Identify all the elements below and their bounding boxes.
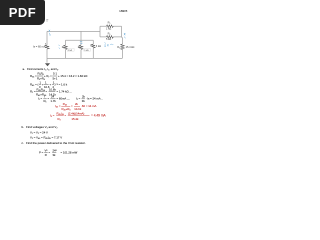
svg-text:(2.4k)(14mA): (2.4k)(14mA) — [68, 111, 84, 115]
svg-text:5 kΩ: 5 kΩ — [84, 49, 89, 52]
svg-text:R₃: R₃ — [58, 117, 61, 121]
svg-text:+ R₇ =: + R₇ = — [44, 74, 52, 78]
svg-text:c.: c. — [22, 141, 25, 145]
svg-text:24²: 24² — [53, 148, 57, 152]
svg-text:·Is ≈ 24 mA ..: ·Is ≈ 24 mA .. — [86, 97, 103, 101]
svg-text:= 60mA ....: = 60mA .... — [57, 97, 71, 101]
svg-text:R₅R₆: R₅R₆ — [38, 72, 44, 76]
svg-text:Find the power delivered to th: Find the power delivered to the 3 kΩ res… — [26, 141, 86, 145]
svg-text:2k: 2k — [82, 95, 86, 99]
svg-text:HW#5: HW#5 — [120, 9, 128, 13]
svg-text:R₄: R₄ — [90, 44, 93, 48]
svg-text:3 kΩ: 3 kΩ — [96, 44, 101, 48]
svg-text:=: = — [71, 104, 73, 108]
svg-text:V₂ = V₄₅ = R₄₅I₄₅ = 7.17 V: V₂ = V₄₅ = R₄₅I₄₅ = 7.17 V — [30, 135, 62, 139]
svg-text:15.4k: 15.4k — [72, 117, 79, 121]
svg-text:R₄₅I₄₅: R₄₅I₄₅ — [57, 111, 64, 115]
svg-text:=: = — [46, 90, 48, 94]
svg-text:+: + — [50, 83, 52, 87]
svg-text:1 kΩ: 1 kΩ — [106, 26, 111, 30]
svg-text:V²: V² — [45, 148, 48, 152]
svg-text:R₂: R₂ — [78, 45, 81, 49]
svg-text:Find voltages V₁ and V₂: Find voltages V₁ and V₂ — [26, 125, 58, 129]
svg-text:=: = — [48, 97, 50, 101]
svg-text:R₆: R₆ — [108, 32, 111, 36]
svg-text:R₄₅: R₄₅ — [63, 102, 67, 106]
svg-text:I₃ =: I₃ = — [50, 114, 55, 118]
svg-text:b.: b. — [22, 125, 25, 129]
svg-text:I₄₅ =: I₄₅ = — [55, 104, 61, 108]
svg-text:a.: a. — [23, 67, 26, 71]
svg-text:)⁻¹ = 1.6 k: )⁻¹ = 1.6 k — [55, 83, 68, 87]
svg-text:3k: 3k — [82, 99, 86, 103]
svg-text:V₁ = V₂ = 24 V: V₁ = V₂ = 24 V — [30, 130, 48, 134]
svg-text:Find currents I₁, I₂, and I₃.: Find currents I₁, I₂, and I₃. — [27, 67, 59, 71]
svg-text:R₁: R₁ — [44, 99, 47, 103]
svg-text:1.7k: 1.7k — [51, 99, 57, 103]
svg-text:1 kΩ: 1 kΩ — [68, 49, 73, 52]
svg-text:2k: 2k — [75, 102, 79, 106]
svg-text:·60 = 14 mA: ·60 = 14 mA — [81, 104, 96, 108]
svg-text:R₅₆ =: R₅₆ = — [30, 74, 37, 78]
svg-text:3k: 3k — [53, 153, 57, 157]
svg-text:15.4 kΩ: 15.4 kΩ — [126, 45, 135, 49]
svg-text:R: R — [45, 153, 47, 157]
svg-text:+ 15.4 = 16.2 ≈ 1.82 kΩ: + 15.4 = 16.2 ≈ 1.82 kΩ — [58, 74, 87, 78]
svg-text:= 101.28 mW: = 101.28 mW — [61, 151, 78, 155]
svg-text:= 4.49 mA: = 4.49 mA — [91, 114, 106, 118]
svg-text:= 1.74 kΩ ...: = 1.74 kΩ ... — [57, 90, 73, 94]
svg-text:24: 24 — [51, 95, 55, 99]
svg-text:5 kΩ: 5 kΩ — [106, 37, 111, 41]
svg-text:R₁: R₁ — [62, 45, 65, 49]
svg-text:R₅: R₅ — [108, 21, 111, 25]
svg-text:5·1: 5·1 — [53, 72, 57, 76]
svg-text:=: = — [65, 114, 67, 118]
svg-text:Is = 60 mA: Is = 60 mA — [33, 44, 46, 48]
svg-text:R₄₅ = (: R₄₅ = ( — [30, 83, 38, 87]
svg-text:R₄₅+R₆: R₄₅+R₆ — [62, 107, 71, 111]
svg-text:1: 1 — [45, 81, 47, 85]
svg-text:10.6k: 10.6k — [49, 87, 56, 91]
svg-text:R₄₅R₅₆: R₄₅R₅₆ — [37, 87, 46, 91]
svg-text:R₂ =: R₂ = — [30, 90, 36, 94]
svg-text:=: = — [49, 151, 51, 155]
svg-text:P =: P = — [39, 151, 44, 155]
svg-text:R₃: R₃ — [117, 45, 120, 49]
svg-text:I₁ =: I₁ = — [38, 97, 42, 101]
svg-text:I₂ =: I₂ = — [76, 97, 81, 101]
